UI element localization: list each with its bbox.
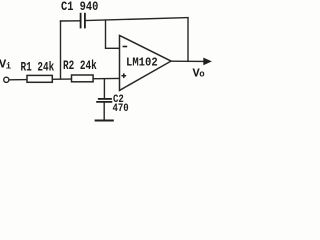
svg-text:LM102: LM102: [126, 57, 158, 70]
svg-text:R1 24k: R1 24k: [21, 61, 55, 75]
svg-text:R2 24k: R2 24k: [63, 60, 97, 74]
svg-text:i: i: [6, 61, 12, 71]
svg-text:o: o: [199, 70, 204, 80]
svg-text:470: 470: [113, 104, 129, 116]
svg-text:C1 940: C1 940: [61, 0, 98, 14]
